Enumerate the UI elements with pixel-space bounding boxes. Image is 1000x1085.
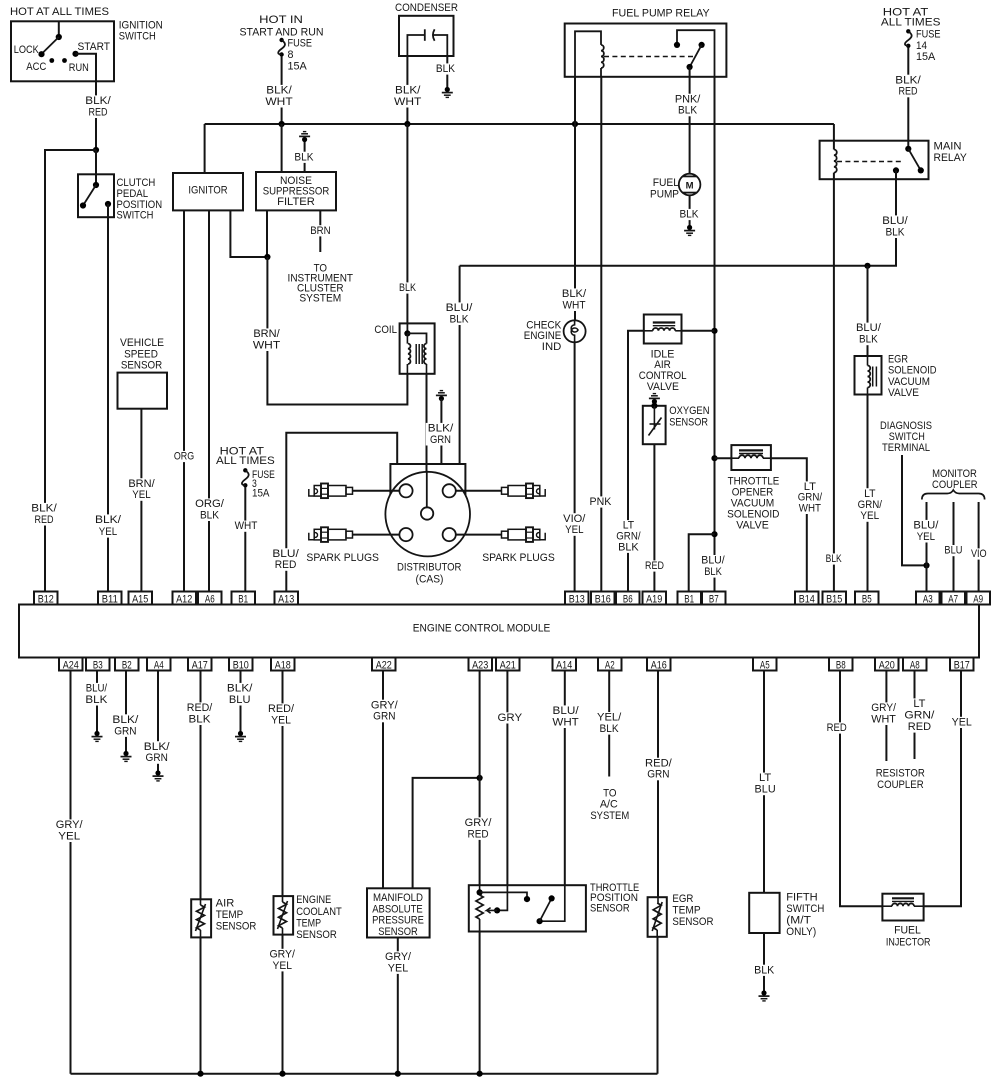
- svg-text:LT: LT: [913, 698, 926, 710]
- svg-text:BLK: BLK: [826, 553, 842, 565]
- wire BLK/YEL clutch switch to B11: [107, 204, 109, 592]
- svg-text:WHT: WHT: [563, 299, 586, 311]
- wire MAP sensor to A23 wire: [413, 778, 480, 888]
- svg-text:GRN: GRN: [373, 711, 395, 723]
- svg-text:ACC: ACC: [26, 61, 46, 73]
- wire throttle opener valve to BLU/BLK: [715, 457, 732, 459]
- svg-text:RED: RED: [898, 86, 917, 98]
- svg-text:GRY/: GRY/: [56, 819, 83, 831]
- svg-text:WHT: WHT: [552, 716, 579, 728]
- wire diagnosis switch terminal to A3: [902, 455, 927, 565]
- ECM pin A23 (bottom row): [469, 658, 493, 671]
- svg-text:A14: A14: [556, 659, 572, 671]
- svg-text:BLU/: BLU/: [272, 548, 298, 560]
- svg-text:A4: A4: [154, 659, 164, 671]
- svg-text:FUSE: FUSE: [916, 29, 941, 41]
- wire BLU/RED A13 to distributor: [286, 433, 397, 592]
- svg-text:RED/: RED/: [645, 757, 672, 769]
- ECM pin A8 (bottom row): [903, 658, 927, 671]
- svg-text:BRN: BRN: [310, 225, 330, 237]
- throttle opener vacuum solenoid valve: [731, 445, 771, 470]
- svg-text:B3: B3: [93, 659, 103, 671]
- svg-text:B16: B16: [595, 593, 611, 605]
- wire EGR temp sensor to ground bus: [657, 937, 659, 1074]
- ECM pin A5 (bottom row): [753, 658, 777, 671]
- svg-text:EGR: EGR: [888, 353, 908, 365]
- svg-text:BLK/: BLK/: [562, 288, 586, 300]
- wire plug wire right top: [456, 490, 501, 492]
- EGR temp sensor: [648, 897, 667, 937]
- svg-text:YEL: YEL: [132, 489, 150, 501]
- svg-text:A8: A8: [910, 659, 920, 671]
- ECM pin B1 (top row): [678, 592, 702, 605]
- svg-text:BLU/: BLU/: [701, 555, 724, 567]
- svg-text:YEL/: YEL/: [597, 712, 621, 724]
- distributor tower bottom-left: [399, 528, 412, 541]
- ECM pin B5 (top row): [855, 592, 879, 605]
- svg-text:GRY: GRY: [498, 712, 523, 724]
- wire LT GRN/BLK idle air control valve to B6: [628, 331, 644, 592]
- svg-text:YEL: YEL: [271, 714, 291, 726]
- engine coolant temp sensor: [274, 896, 294, 935]
- svg-text:OXYGEN: OXYGEN: [669, 405, 709, 417]
- spark plug left bottom: [309, 533, 314, 540]
- wire plug wire left bottom: [353, 534, 399, 536]
- svg-text:A23: A23: [472, 659, 488, 671]
- svg-text:B14: B14: [799, 593, 815, 605]
- manifold absolute pressure sensor: [367, 888, 430, 937]
- svg-text:A21: A21: [500, 659, 516, 671]
- ground B10: [235, 731, 246, 742]
- wire RED oxygen sensor to A19: [653, 444, 655, 591]
- fuel injector: [882, 894, 923, 921]
- ECM pin A20 (bottom row): [875, 658, 899, 671]
- ECM pin B15 (top row): [823, 592, 847, 605]
- svg-text:AIR: AIR: [216, 898, 235, 910]
- svg-text:LT: LT: [864, 488, 876, 500]
- node bus/fuse8: [279, 121, 285, 127]
- svg-text:BLU/: BLU/: [913, 520, 938, 532]
- wire B1 branch: [689, 534, 715, 591]
- air temp sensor: [191, 899, 211, 937]
- lamp check engine indicator: [564, 320, 586, 342]
- svg-text:FILTER: FILTER: [277, 196, 315, 208]
- wire BLK fuel pump to ground: [689, 196, 691, 227]
- ECM pin B17 (bottom row): [950, 658, 974, 671]
- TPS idle switch: [540, 885, 565, 921]
- ECM pin B3 (bottom row): [86, 658, 110, 671]
- svg-text:A9: A9: [973, 593, 983, 605]
- ground A4: [153, 770, 164, 781]
- svg-text:MANIFOLD: MANIFOLD: [373, 892, 423, 904]
- svg-text:INJECTOR: INJECTOR: [886, 937, 931, 949]
- svg-text:A17: A17: [192, 659, 208, 671]
- svg-text:SYSTEM: SYSTEM: [299, 293, 341, 305]
- noise suppressor filter: [256, 172, 336, 210]
- ECM pin B11 (top row): [98, 592, 122, 605]
- svg-text:YEL: YEL: [952, 716, 972, 728]
- svg-text:A6: A6: [205, 593, 215, 605]
- svg-text:RED: RED: [645, 560, 664, 572]
- svg-text:BLK/: BLK/: [428, 423, 453, 435]
- ground B2: [121, 751, 132, 762]
- svg-text:8: 8: [288, 49, 294, 61]
- svg-text:BLK: BLK: [885, 226, 904, 238]
- wire BLK/GRN B2 to ground: [125, 671, 127, 753]
- ignition switch: [11, 21, 114, 81]
- ECM pin A4 (bottom row): [147, 658, 171, 671]
- fuel pump motor: [679, 174, 701, 196]
- distributor tower top-left: [399, 484, 412, 497]
- main relay: [820, 141, 929, 180]
- wire BLK/WHT fuse 8 to bus: [281, 56, 283, 124]
- ECM pin B7 (top row): [702, 592, 726, 605]
- ECM pin B10 (bottom row): [229, 658, 253, 671]
- svg-text:A3: A3: [923, 593, 933, 605]
- wire LT GRN/WHT throttle opener valve to B14: [771, 458, 807, 591]
- wire BLK/RED fuse 14 to main relay: [907, 47, 909, 149]
- svg-text:ENGINE: ENGINE: [296, 894, 331, 906]
- ECM pin A7 (top row): [942, 592, 966, 605]
- svg-text:TEMP: TEMP: [296, 917, 321, 929]
- wire noise suppressor filter to primary junction: [266, 210, 268, 257]
- ECM pin B8 (bottom row): [829, 658, 853, 671]
- svg-text:A22: A22: [376, 659, 392, 671]
- wire GRY A21 to TPS wiper: [506, 671, 508, 886]
- svg-text:YEL: YEL: [99, 526, 117, 538]
- clutch pedal position switch: [78, 174, 114, 217]
- wire junction to clutch switch: [95, 150, 97, 174]
- svg-text:TERMINAL: TERMINAL: [882, 442, 930, 454]
- svg-text:A2: A2: [605, 659, 615, 671]
- wire BLU/BLK B3 to ground: [96, 671, 98, 733]
- wire WHT fuse 3 to B1: [244, 487, 246, 592]
- svg-text:VACUUM: VACUUM: [888, 376, 930, 388]
- wire bus to noise suppressor filter: [281, 124, 283, 172]
- spark plug right bottom: [540, 533, 545, 540]
- TPS potentiometer: [479, 885, 481, 892]
- svg-text:GRY/: GRY/: [385, 951, 411, 963]
- svg-text:B1: B1: [684, 593, 694, 605]
- ECM pin A18 (bottom row): [271, 658, 295, 671]
- svg-text:RED: RED: [34, 514, 53, 526]
- svg-text:BRN/: BRN/: [128, 478, 154, 490]
- svg-text:BLU/: BLU/: [86, 683, 107, 695]
- ECM pin B12 (top row): [34, 592, 58, 605]
- svg-text:A16: A16: [651, 659, 667, 671]
- wire BLK condenser to ground: [446, 56, 448, 88]
- capacitor inside condenser: [407, 35, 424, 56]
- svg-text:RED/: RED/: [187, 702, 213, 714]
- wire coil secondary to distributor (upper part): [426, 374, 428, 473]
- svg-text:COUPLER: COUPLER: [877, 779, 924, 791]
- wire BLK bus to coil: [406, 124, 408, 323]
- wire GRY/YEL MAP sensor to ground bus: [397, 938, 399, 1074]
- svg-text:BLU/: BLU/: [882, 215, 907, 227]
- svg-text:YEL: YEL: [917, 531, 935, 543]
- svg-text:15A: 15A: [916, 51, 936, 63]
- wire BLK/WHT bus to check engine lamp: [574, 77, 576, 320]
- node bus/MAP: [395, 1071, 401, 1077]
- svg-text:14: 14: [916, 40, 927, 52]
- svg-text:ALL TIMES: ALL TIMES: [216, 455, 275, 467]
- ECM pin A21 (bottom row): [496, 658, 520, 671]
- ECM pin B2 (bottom row): [115, 658, 139, 671]
- wire plug wire right bottom: [456, 534, 501, 536]
- svg-text:A12: A12: [176, 593, 192, 605]
- wire BLK/BLU B10 to ground: [240, 671, 242, 733]
- svg-text:COOLANT: COOLANT: [296, 906, 342, 918]
- svg-text:SENSOR: SENSOR: [669, 416, 708, 428]
- svg-text:B11: B11: [102, 593, 118, 605]
- svg-text:BLK: BLK: [294, 151, 313, 163]
- wire YEL/BLK A2 to A/C system: [608, 671, 610, 777]
- svg-text:TEMP: TEMP: [672, 905, 700, 917]
- node BLU/BLK / throttle opener valve: [711, 455, 717, 461]
- svg-text:BLU/: BLU/: [856, 322, 881, 334]
- wire BLU/BLK to EGR solenoid valve: [867, 266, 869, 356]
- svg-text:LT: LT: [759, 772, 772, 784]
- ECM pin A15 (top row): [129, 592, 153, 605]
- svg-text:B1: B1: [238, 593, 248, 605]
- svg-text:MAIN: MAIN: [934, 141, 962, 153]
- ECM pin A19 (top row): [643, 592, 667, 605]
- ECM pin A13 (top row): [275, 592, 299, 605]
- svg-text:PNK/: PNK/: [675, 93, 701, 105]
- wire TPS to ground bus: [479, 932, 481, 1074]
- svg-text:SPARK PLUGS: SPARK PLUGS: [306, 552, 379, 564]
- svg-text:SYSTEM: SYSTEM: [590, 810, 629, 822]
- svg-text:A7: A7: [948, 593, 958, 605]
- wire BRN/WHT primary junction to coil: [267, 257, 407, 405]
- svg-text:SENSOR: SENSOR: [296, 929, 337, 941]
- wire to B12: [45, 150, 96, 592]
- wire GRY/YEL A24 to sensor ground bus: [70, 671, 72, 1074]
- svg-text:B8: B8: [836, 659, 846, 671]
- wire BLU/BLK main relay output: [460, 170, 896, 265]
- ignitor: [204, 124, 206, 173]
- wire idle air control valve to BLU/BLK: [682, 330, 715, 332]
- wire sensor ground bus: [71, 1073, 658, 1075]
- svg-text:YEL: YEL: [860, 510, 879, 522]
- svg-text:SWITCH: SWITCH: [786, 903, 824, 915]
- svg-text:B2: B2: [122, 659, 132, 671]
- ground BLK/GRN distributor: [436, 391, 447, 402]
- distributor rotor terminal: [421, 507, 433, 519]
- svg-text:BLK/: BLK/: [85, 95, 110, 107]
- ground oxygen sensor: [649, 394, 660, 405]
- svg-text:GRN: GRN: [647, 769, 669, 781]
- ECM pin A16 (bottom row): [647, 658, 671, 671]
- svg-text:WHT: WHT: [235, 520, 258, 532]
- svg-text:BLK: BLK: [679, 209, 698, 221]
- node primary junction: [264, 254, 270, 260]
- svg-text:FUEL: FUEL: [653, 177, 679, 189]
- svg-text:GRN/: GRN/: [858, 499, 882, 511]
- ECM pin B1 (top row): [232, 592, 256, 605]
- svg-text:RED: RED: [88, 106, 107, 118]
- svg-text:(CAS): (CAS): [416, 574, 444, 586]
- svg-text:BLU: BLU: [229, 694, 251, 706]
- svg-text:ORG/: ORG/: [195, 498, 224, 510]
- svg-text:IGNITION: IGNITION: [119, 19, 163, 31]
- fifth switch: [749, 893, 779, 933]
- svg-text:VIO/: VIO/: [563, 513, 585, 525]
- node junction ignition/clutch/B12: [93, 147, 99, 153]
- distributor tower top-right: [443, 484, 456, 497]
- svg-text:GRY/: GRY/: [871, 702, 896, 714]
- svg-text:B6: B6: [623, 593, 633, 605]
- spark plug left top: [309, 489, 314, 496]
- svg-text:RED/: RED/: [268, 703, 294, 715]
- ground noise suppressor filter: [304, 140, 306, 172]
- svg-text:B5: B5: [862, 593, 872, 605]
- svg-text:SOLENOID: SOLENOID: [727, 509, 780, 521]
- svg-text:SWITCH: SWITCH: [889, 431, 925, 443]
- svg-text:BLK: BLK: [399, 282, 416, 294]
- coil primary winding: [408, 344, 411, 364]
- ECM pin B13 (top row): [565, 592, 589, 605]
- wire RED/GRN A16 to EGR temp sensor: [657, 671, 659, 898]
- svg-text:GRY/: GRY/: [371, 699, 398, 711]
- ignition coil: [400, 323, 435, 373]
- svg-text:WHT: WHT: [265, 96, 293, 108]
- wire ignitor to primary junction: [230, 210, 267, 257]
- svg-text:TEMP: TEMP: [216, 909, 244, 921]
- svg-text:RED: RED: [468, 828, 489, 840]
- svg-text:GRN/: GRN/: [904, 710, 934, 722]
- svg-text:SWITCH: SWITCH: [119, 31, 156, 43]
- svg-text:B15: B15: [826, 593, 842, 605]
- relay switch fuel pump relay: [677, 30, 715, 77]
- svg-text:BLK: BLK: [704, 566, 722, 578]
- svg-text:SWITCH: SWITCH: [117, 210, 154, 222]
- svg-text:GRN: GRN: [114, 725, 136, 737]
- ECM pin A3 (top row): [916, 592, 940, 605]
- svg-text:BLK: BLK: [449, 313, 468, 325]
- ECM pin B14 (top row): [795, 592, 819, 605]
- ground condenser: [442, 87, 453, 98]
- svg-text:YEL: YEL: [272, 960, 292, 972]
- svg-text:BLK: BLK: [859, 334, 878, 346]
- svg-text:BLK: BLK: [436, 63, 455, 75]
- svg-text:15A: 15A: [252, 488, 270, 500]
- svg-text:GRY/: GRY/: [269, 948, 295, 960]
- svg-text:FUEL: FUEL: [894, 925, 921, 937]
- EGR solenoid vacuum valve: [855, 356, 882, 395]
- node diagnosis/A3: [923, 562, 929, 568]
- svg-text:BLU: BLU: [755, 784, 776, 796]
- wire air temp sensor to ground bus: [200, 937, 202, 1073]
- svg-text:RED: RED: [275, 559, 297, 571]
- oxygen sensor: [643, 406, 666, 444]
- svg-text:CONDENSER: CONDENSER: [395, 2, 458, 14]
- svg-text:BLK: BLK: [618, 541, 639, 553]
- wire LT GRN/YEL EGR solenoid valve to B5: [867, 395, 869, 592]
- node bus/fuel pump relay coil: [572, 121, 578, 127]
- wire RED/BLK A17 to air temp sensor: [200, 671, 202, 900]
- svg-text:BLU/: BLU/: [446, 302, 473, 314]
- svg-text:BLK/: BLK/: [144, 741, 170, 753]
- svg-text:RUN: RUN: [69, 62, 89, 74]
- wire PNK fuel pump relay coil to B16: [600, 77, 602, 592]
- svg-text:BRN/: BRN/: [253, 328, 279, 340]
- svg-text:FUEL PUMP RELAY: FUEL PUMP RELAY: [612, 8, 710, 20]
- svg-text:BLK: BLK: [189, 713, 211, 725]
- svg-text:FUSE: FUSE: [288, 37, 313, 49]
- wire GRY/WHT A20 resistor coupler: [885, 671, 887, 762]
- svg-text:BLK/: BLK/: [31, 503, 56, 515]
- svg-text:B13: B13: [569, 593, 585, 605]
- svg-text:DIAGNOSIS: DIAGNOSIS: [880, 420, 932, 432]
- svg-text:BLU: BLU: [944, 545, 962, 557]
- svg-text:SOLENOID: SOLENOID: [888, 365, 937, 377]
- svg-text:YEL: YEL: [58, 830, 80, 842]
- svg-text:VEHICLE: VEHICLE: [120, 337, 164, 349]
- svg-text:GRN: GRN: [430, 434, 451, 446]
- ground B3: [92, 731, 103, 742]
- svg-text:A19: A19: [646, 593, 662, 605]
- svg-text:EGR: EGR: [672, 893, 693, 905]
- wire LT GRN/RED A8 resistor coupler: [914, 671, 916, 760]
- relay coil main relay: [833, 124, 835, 150]
- svg-text:ENGINE CONTROL MODULE: ENGINE CONTROL MODULE: [413, 623, 551, 635]
- node bus/condenser: [404, 121, 410, 127]
- ECM pin A22 (bottom row): [372, 658, 396, 671]
- wire BLK/WHT condenser to bus: [406, 56, 408, 124]
- svg-text:COUPLER: COUPLER: [932, 479, 978, 491]
- svg-text:PUMP: PUMP: [650, 188, 679, 200]
- svg-text:VALVE: VALVE: [647, 381, 679, 393]
- TPS wiper: [497, 885, 507, 910]
- relay switch main relay: [905, 146, 911, 152]
- svg-text:BLK: BLK: [200, 509, 219, 521]
- wire ORG/BLK ignitor to A6: [208, 210, 210, 591]
- svg-text:SENSOR: SENSOR: [590, 902, 630, 914]
- svg-text:SENSOR: SENSOR: [121, 359, 163, 371]
- svg-text:SENSOR: SENSOR: [672, 916, 713, 928]
- ECM pin A2 (bottom row): [598, 658, 622, 671]
- svg-text:A13: A13: [278, 593, 294, 605]
- svg-text:A5: A5: [760, 659, 770, 671]
- node BLU/BLK / idle air control valve: [711, 328, 717, 334]
- brace monitor coupler: [922, 490, 985, 500]
- svg-text:ONLY): ONLY): [786, 926, 816, 938]
- wire VIO monitor coupler to A9: [978, 502, 980, 592]
- node bus/air temp: [197, 1071, 203, 1077]
- wire coil secondary into rotor: [426, 472, 428, 508]
- ECM pin A14 (bottom row): [553, 658, 577, 671]
- wire ORG ignitor to A12: [183, 210, 185, 591]
- ground fuel pump: [684, 225, 695, 236]
- svg-text:YEL: YEL: [565, 524, 583, 536]
- spark plug right top: [540, 489, 545, 496]
- svg-text:WHT: WHT: [394, 96, 422, 108]
- svg-text:RELAY: RELAY: [934, 152, 967, 164]
- ignition switch START output wire: [76, 54, 97, 82]
- ECM pin B16 (top row): [591, 592, 615, 605]
- ECM pin A6 (top row): [198, 592, 222, 605]
- distributor body: [390, 464, 465, 519]
- svg-text:TO: TO: [603, 787, 616, 799]
- ECM pin A9 (top row): [967, 592, 991, 605]
- wire BRN/YEL vehicle speed sensor to A15: [140, 409, 142, 592]
- svg-text:BLK/: BLK/: [895, 74, 920, 86]
- svg-text:A18: A18: [275, 659, 291, 671]
- svg-text:CONTROL: CONTROL: [639, 370, 687, 382]
- svg-text:FIFTH: FIFTH: [786, 891, 817, 903]
- svg-text:ALL TIMES: ALL TIMES: [881, 16, 941, 28]
